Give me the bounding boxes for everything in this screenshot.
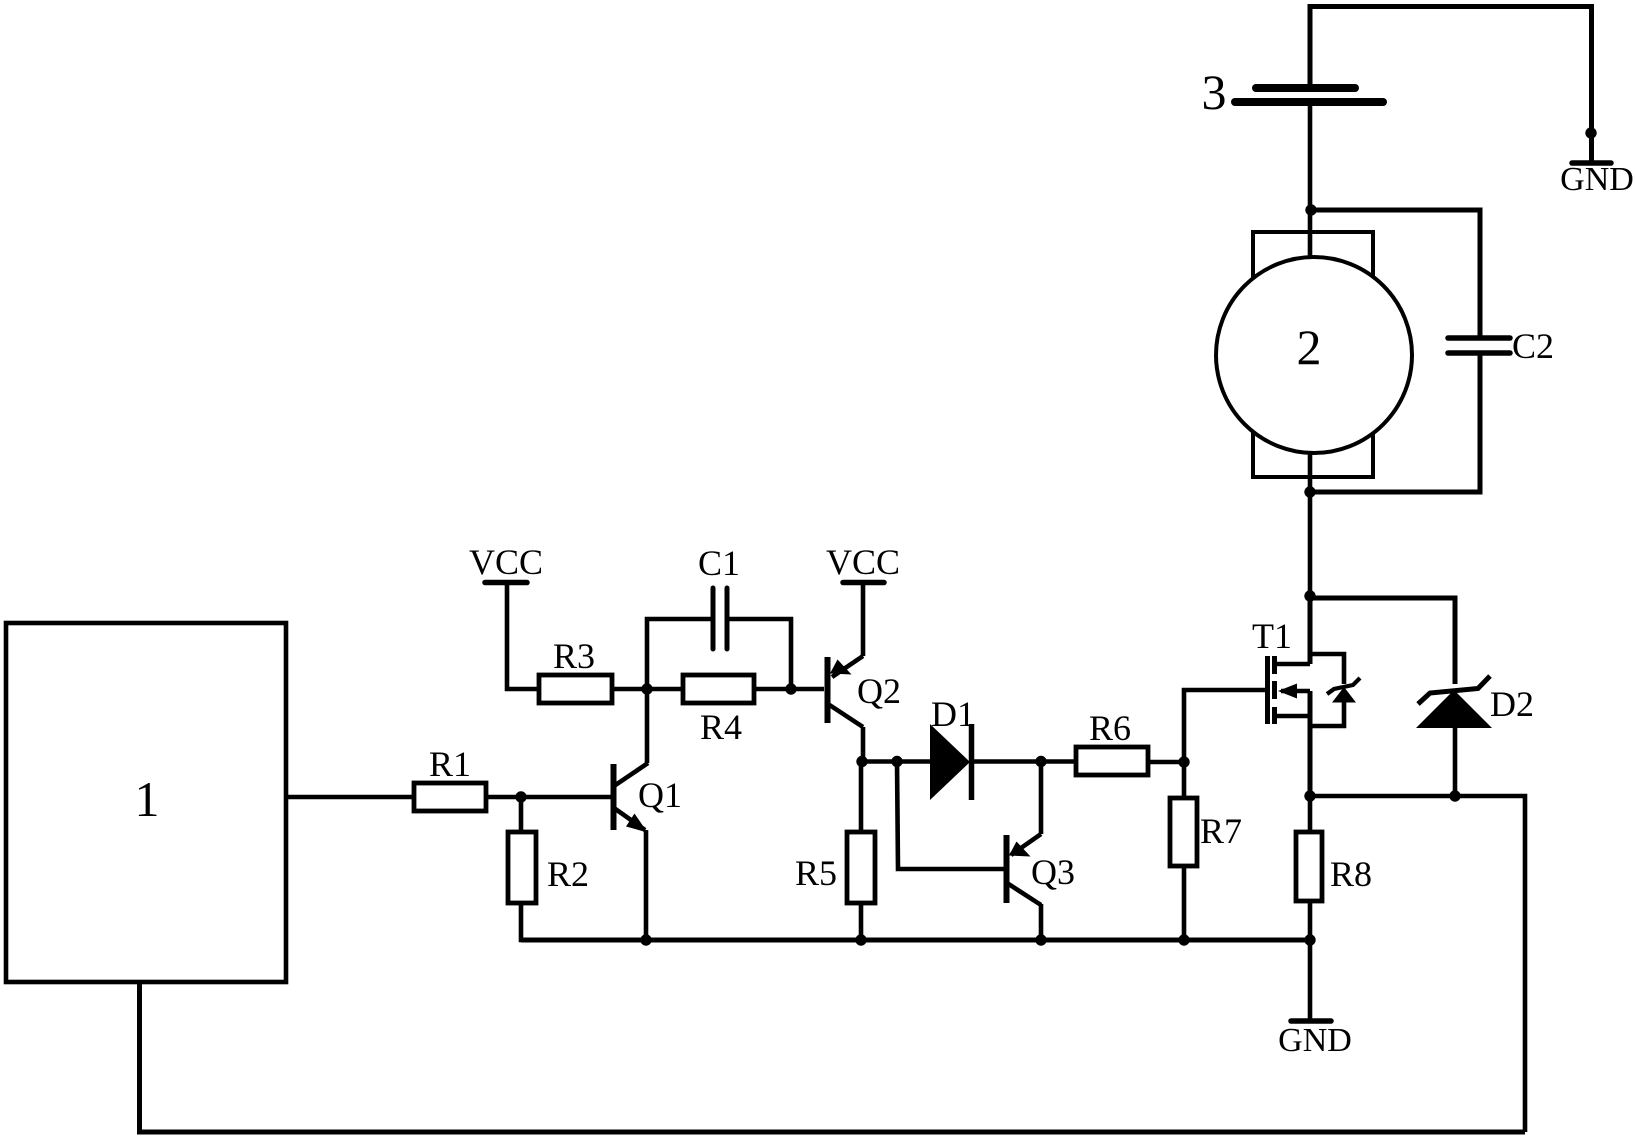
resistor R3 bbox=[539, 636, 612, 703]
transistor Q1 bbox=[614, 763, 683, 833]
svg-text:R5: R5 bbox=[795, 853, 837, 893]
wire node S to node H bbox=[1310, 794, 1455, 799]
wire motor top to C2 bbox=[1311, 210, 1480, 338]
resistor R7 bbox=[1170, 762, 1242, 940]
capacitor C2 bbox=[1448, 326, 1554, 366]
capacitor C1 bbox=[698, 543, 740, 649]
ground GND top right bbox=[1560, 161, 1634, 198]
node E junction bbox=[1035, 756, 1046, 767]
wire T1 drain up to node G bbox=[1308, 596, 1313, 664]
resistor R8 bbox=[1296, 796, 1372, 940]
wire Q1 collector to node A bbox=[645, 689, 650, 763]
node B junction bbox=[785, 683, 796, 694]
svg-text:T1: T1 bbox=[1252, 616, 1292, 656]
wire battery positive to top right bbox=[1310, 7, 1592, 164]
svg-text:GND: GND bbox=[1278, 1022, 1352, 1059]
svg-text:R3: R3 bbox=[553, 636, 595, 676]
node rail R8 bbox=[1304, 934, 1315, 945]
resistor R6 bbox=[1076, 708, 1148, 775]
svg-text:D2: D2 bbox=[1490, 684, 1534, 724]
wire R4 to node B bbox=[754, 687, 824, 692]
svg-text:3: 3 bbox=[1202, 64, 1227, 120]
node C junction bbox=[856, 756, 867, 767]
wire block1 bottom return bbox=[140, 982, 1526, 1132]
wire node H to right drop bbox=[1455, 796, 1525, 1132]
wire motor bottom pin bbox=[1308, 450, 1313, 596]
block 1 bbox=[6, 623, 286, 982]
wire T1 source down to node S bbox=[1308, 691, 1313, 796]
wire block1 to R1 bbox=[286, 795, 416, 800]
diode D1 bbox=[930, 694, 975, 800]
zener diode D2 bbox=[1416, 676, 1534, 728]
node S junction (source) bbox=[1304, 790, 1315, 801]
wire node A to R4 bbox=[647, 687, 683, 692]
power VCC right bbox=[826, 542, 900, 583]
svg-text:R4: R4 bbox=[700, 707, 742, 747]
wire R1 to node B1 bbox=[486, 795, 611, 800]
node J junction (motor top) bbox=[1305, 204, 1316, 215]
wire D2 to node H bbox=[1453, 728, 1458, 797]
resistor R5 bbox=[795, 762, 875, 940]
svg-text:VCC: VCC bbox=[826, 542, 900, 582]
wire node B1 to R2 bbox=[519, 797, 524, 833]
wire C1 right plate to node B bbox=[729, 619, 791, 689]
wire R6 to node F bbox=[1148, 760, 1184, 765]
svg-text:R8: R8 bbox=[1330, 854, 1372, 894]
ground GND bottom bbox=[1278, 940, 1352, 1059]
node F junction bbox=[1178, 756, 1189, 767]
wire motor bottom to C2 bbox=[1310, 353, 1480, 492]
svg-text:VCC: VCC bbox=[469, 542, 543, 582]
node rail R7 bbox=[1178, 934, 1189, 945]
ground rail bbox=[521, 938, 1310, 943]
transistor Q2 bbox=[828, 656, 902, 727]
resistor R1 bbox=[414, 744, 486, 811]
svg-text:R2: R2 bbox=[547, 854, 589, 894]
wire R3 to node A bbox=[612, 687, 647, 692]
motor 2 bbox=[1216, 232, 1412, 477]
svg-text:2: 2 bbox=[1297, 319, 1322, 375]
svg-text:C2: C2 bbox=[1512, 326, 1554, 366]
svg-text:D1: D1 bbox=[931, 694, 975, 734]
wire D1 cathode to node E bbox=[972, 759, 1076, 764]
power VCC left bbox=[469, 542, 543, 583]
node G junction (drain) bbox=[1304, 590, 1315, 601]
node H junction bbox=[1449, 790, 1460, 801]
wire VCC to Q2 emitter bbox=[861, 583, 866, 656]
wire Q3 collector to ground rail bbox=[1039, 904, 1044, 940]
wire R2 to ground rail bbox=[521, 903, 649, 940]
svg-text:Q3: Q3 bbox=[1031, 852, 1075, 892]
node A junction bbox=[641, 683, 652, 694]
svg-text:Q1: Q1 bbox=[638, 775, 682, 815]
resistor R4 bbox=[683, 675, 754, 747]
node rail R5 bbox=[855, 934, 866, 945]
wire battery negative to motor bbox=[1308, 102, 1313, 262]
wire node G to D2 bbox=[1310, 598, 1455, 684]
node D junction bbox=[891, 756, 902, 767]
node I junction (top right) bbox=[1585, 127, 1596, 138]
resistor R2 bbox=[508, 832, 589, 903]
battery 3 bbox=[1202, 64, 1384, 120]
node B1 junction bbox=[515, 791, 526, 802]
node rail Q1 bbox=[640, 934, 651, 945]
svg-text:R7: R7 bbox=[1200, 811, 1242, 851]
svg-text:R6: R6 bbox=[1089, 708, 1131, 748]
node K junction (motor bottom) bbox=[1304, 486, 1315, 497]
body zener of T1 bbox=[1310, 654, 1360, 726]
wire Q3 emitter to node E bbox=[1039, 762, 1044, 835]
wire VCC to R3 bbox=[507, 583, 539, 689]
svg-text:1: 1 bbox=[135, 771, 160, 827]
svg-text:R1: R1 bbox=[429, 744, 471, 784]
wire node C to D1 bbox=[862, 759, 932, 764]
node rail Q3 bbox=[1035, 934, 1046, 945]
transistor Q3 bbox=[897, 762, 1075, 906]
wire gate: node F to T1 gate bbox=[1184, 690, 1266, 762]
wire Q2 collector to node C bbox=[861, 727, 866, 762]
mosfet T1 bbox=[1252, 616, 1310, 724]
svg-text:C1: C1 bbox=[698, 543, 740, 583]
svg-text:GND: GND bbox=[1560, 161, 1634, 198]
wire node A up to C1 left plate bbox=[647, 619, 711, 689]
svg-text:Q2: Q2 bbox=[857, 671, 901, 711]
wire Q1 emitter to ground rail bbox=[644, 830, 649, 940]
